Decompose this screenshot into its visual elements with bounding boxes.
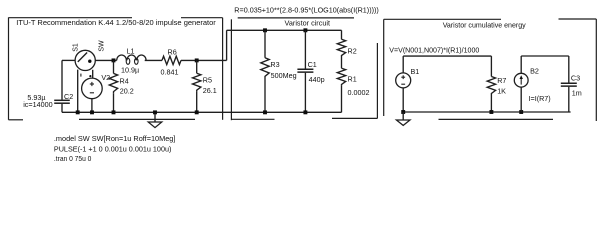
wire R4 to rail	[113, 93, 115, 112]
wire down to R7	[490, 56, 492, 76]
svg-text:.model SW SW[Ron=1u Roff=10Meg: .model SW SW[Ron=1u Roff=10Meg]	[54, 134, 175, 143]
svg-text:Varistor cumulative energy: Varistor cumulative energy	[443, 21, 526, 30]
svg-text:Varistor circuit: Varistor circuit	[285, 18, 331, 27]
varistor circuit box bottom border segment 1	[231, 118, 274, 120]
svg-text:S1: S1	[72, 43, 79, 52]
wire S1 control plus to V2	[92, 70, 94, 78]
resistor R6	[162, 56, 181, 64]
svg-text:10.9µ: 10.9µ	[121, 66, 139, 75]
wire V2 to rail	[91, 99, 93, 113]
node dot C1 bottom	[303, 110, 307, 114]
svg-text:1K: 1K	[497, 87, 506, 96]
varistor circuit box left border	[230, 19, 232, 120]
wire B2 bottom to rail	[520, 87, 522, 112]
ground	[402, 112, 404, 120]
cumulative energy box right border	[595, 19, 597, 121]
S1 control plus mark	[89, 75, 91, 77]
inductor L1	[117, 55, 146, 60]
varistor circuit box right border	[376, 43, 378, 118]
behavioral source B1	[396, 73, 411, 88]
cumulative energy box left border	[383, 19, 385, 116]
svg-text:PULSE(-1 +1 0 0.001u 0.001u 10: PULSE(-1 +1 0 0.001u 0.001u 100u)	[54, 145, 172, 154]
svg-text:0.841: 0.841	[161, 68, 179, 77]
wire R1 to rail	[341, 86, 343, 112]
resistor R3	[261, 58, 269, 78]
wire R3 to rail	[264, 78, 266, 112]
impulse generator box top border segment 2	[181, 17, 223, 19]
svg-text:B2: B2	[530, 67, 539, 76]
svg-text:I=I(R7): I=I(R7)	[529, 94, 551, 103]
ground	[154, 114, 156, 122]
svg-text:C3: C3	[571, 74, 580, 83]
svg-text:V=V(N001,N007)*I(R1)/1000: V=V(N001,N007)*I(R1)/1000	[389, 47, 479, 55]
wire to R4	[113, 60, 115, 73]
wire C2 to rail	[61, 104, 63, 113]
wire B2 to C3	[521, 55, 569, 57]
wire to R5	[196, 60, 198, 73]
junction dot B1 on rail	[401, 110, 405, 114]
junction dot B2 on rail	[519, 110, 523, 114]
capacitor C3	[561, 82, 577, 84]
svg-text:ITU-T Recommendation K.44 1.2: ITU-T Recommendation K.44 1.2/50-8/20 im…	[16, 19, 216, 27]
wire R7 to rail	[490, 95, 492, 112]
wire B1 to R7	[403, 55, 491, 57]
svg-text:R3: R3	[270, 60, 279, 69]
svg-text:R1: R1	[348, 74, 357, 83]
wire L1 to R6	[145, 59, 162, 61]
impulse generator box right border	[222, 18, 224, 120]
wire S1 left to C2 branch	[62, 59, 75, 61]
svg-text:SW: SW	[98, 40, 105, 52]
capacitor C1	[297, 68, 313, 70]
impulse generator box bottom border segment 2	[79, 118, 195, 120]
wire varistor top	[227, 29, 342, 31]
wire energy circuit rail	[403, 111, 570, 113]
svg-text:V2: V2	[101, 73, 110, 82]
svg-text:.tran 0 75u 0: .tran 0 75u 0	[54, 154, 92, 163]
impulse generator box top border segment 1	[9, 17, 133, 19]
svg-text:R=0.035+10**(2.8-0.95*(LOG10(a: R=0.035+10**(2.8-0.95*(LOG10(abs(I(R1)))…	[234, 6, 378, 14]
node dot C1 top	[303, 28, 307, 32]
wire down to C3	[568, 56, 570, 83]
impulse generator box bottom border segment 1	[9, 119, 24, 121]
node dot R4 branch	[112, 58, 116, 62]
svg-text:500Meg: 500Meg	[271, 71, 297, 80]
junction dot ground on rail	[153, 110, 157, 114]
junction dot S1 control on rail	[76, 110, 80, 114]
switch S1	[75, 50, 95, 70]
wire ground rail	[62, 111, 342, 113]
svg-text:26.1: 26.1	[203, 86, 217, 95]
varistor circuit box bottom border segment 2	[332, 117, 377, 119]
junction dot R5 on rail	[195, 110, 199, 114]
svg-text:20.2: 20.2	[120, 87, 134, 96]
wire C1 to rail	[304, 73, 306, 113]
junction dot R4 on rail	[112, 110, 116, 114]
resistor R7	[487, 77, 495, 96]
svg-text:L1: L1	[127, 46, 135, 55]
wire R5 to rail	[196, 92, 198, 113]
svg-text:R7: R7	[497, 76, 506, 85]
cumulative energy box top border segment 2	[559, 18, 597, 20]
wire up into varistor circuit	[226, 30, 228, 60]
wire S1 right to L1	[95, 59, 116, 61]
voltage source V2	[82, 78, 103, 99]
svg-text:R6: R6	[168, 47, 177, 56]
wire to R2	[341, 30, 343, 39]
svg-text:C1: C1	[308, 60, 317, 69]
wire B1 bottom to rail	[402, 88, 404, 112]
node dot R5 branch	[195, 58, 199, 62]
resistor R1	[337, 68, 345, 86]
svg-text:0.0002: 0.0002	[348, 88, 370, 97]
svg-text:ic=14000: ic=14000	[23, 100, 52, 109]
junction dot R7 on rail	[489, 110, 493, 114]
wire R6 to varistor box	[181, 59, 227, 61]
node dot R3 top	[263, 28, 267, 32]
svg-text:1m: 1m	[572, 89, 582, 98]
cumulative energy box top border segment 1	[384, 18, 501, 20]
capacitor C2	[54, 99, 70, 101]
resistor R4	[109, 73, 117, 93]
resistor R2	[337, 39, 345, 57]
wire to R3	[264, 30, 266, 58]
svg-text:R4: R4	[120, 77, 129, 86]
svg-text:B1: B1	[411, 67, 420, 76]
impulse generator box left border	[8, 17, 10, 119]
svg-text:C2: C2	[64, 92, 73, 101]
svg-text:R2: R2	[348, 47, 357, 56]
wire to C1	[304, 30, 306, 68]
cumulative energy box bottom border	[439, 118, 554, 120]
wire R2 to R1	[341, 57, 343, 68]
svg-text:R5: R5	[203, 76, 212, 85]
node dot R3 bottom	[263, 110, 267, 114]
S1 control polarity tick	[80, 74, 82, 77]
behavioral current source B2	[514, 73, 528, 87]
wire C3 to rail	[568, 87, 570, 112]
wire B2 top up	[520, 56, 522, 73]
junction dot V2 on rail	[90, 110, 94, 114]
wire down to C2	[61, 60, 63, 99]
wire S1 control minus to rail	[77, 70, 79, 113]
svg-text:440p: 440p	[309, 75, 325, 84]
varistor circuit box top border	[238, 17, 354, 19]
resistor R5	[193, 73, 201, 92]
wire B1 top up	[402, 56, 404, 73]
